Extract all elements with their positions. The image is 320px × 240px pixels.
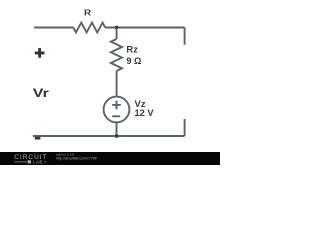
node junction bottom (dot) (115, 134, 119, 138)
wire right bottom stub (open terminal) (184, 119, 186, 136)
wire from Vz to bottom junction (116, 122, 118, 136)
wire from Rz to voltage source Vz (116, 71, 118, 97)
svg-text:12 V: 12 V (135, 108, 155, 118)
footer watermark bar (0, 152, 220, 165)
wire top-left from port + terminal to resistor R (34, 27, 73, 29)
resistor R (73, 23, 105, 33)
wire from resistor R to top-right corner (105, 27, 184, 29)
wire from top junction down to Rz (116, 28, 118, 40)
svg-text:Rz: Rz (126, 45, 138, 55)
svg-text:LAB: LAB (33, 160, 43, 165)
port polarity minus sign (35, 137, 41, 140)
CircuitLab logo LAB line (14, 160, 46, 165)
svg-text:R: R (84, 8, 92, 18)
resistor Rz (111, 39, 122, 71)
plus mark inside Vz (112, 101, 121, 110)
node junction top (dot) (115, 26, 119, 30)
voltage source Vz (circle) (104, 97, 130, 123)
minus mark inside Vz (112, 115, 120, 117)
port polarity plus sign (35, 48, 45, 58)
svg-text:Vr: Vr (33, 86, 49, 100)
wire right top stub (open terminal) (184, 28, 186, 45)
wire bottom from port - terminal to bottom-right corner (33, 135, 185, 137)
svg-text:http://circuitlab.com/c77f9r: http://circuitlab.com/c77f9r (56, 156, 98, 160)
svg-text:9 Ω: 9 Ω (126, 56, 141, 66)
